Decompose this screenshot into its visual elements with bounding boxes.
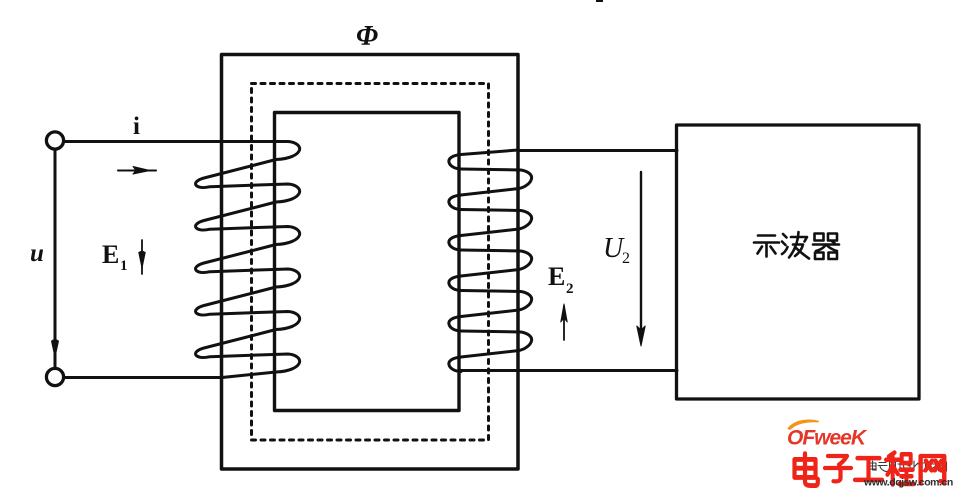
svg-text:i: i (133, 113, 140, 140)
wire: bottom-left horizontal (64, 376, 223, 379)
terminal top-left (46, 132, 63, 149)
watermark big red text (dian zi gong cheng wang) (795, 453, 945, 486)
watermark small gray text (dian qi zi dong hua ji shu wang) (869, 461, 947, 472)
wire: top-left horizontal (64, 140, 289, 143)
arrow on left wire (down) (52, 339, 59, 357)
glyph shi (754, 236, 779, 257)
speck at top edge (596, 0, 603, 2)
svg-text:2: 2 (566, 281, 574, 297)
transformer core outer boundary (222, 55, 519, 470)
oscilloscope label (drawn glyphs: shi bo qi) (754, 232, 839, 259)
glyph dian (795, 454, 818, 486)
svg-text:1: 1 (120, 258, 128, 274)
primary winding L1 (196, 142, 300, 378)
secondary winding L2 (449, 150, 532, 372)
arrow E1 (down) (141, 240, 143, 274)
svg-text:Φ: Φ (356, 21, 378, 52)
core window (inner rectangle) (275, 113, 460, 411)
flux path (dotted) (252, 84, 489, 441)
glyph zi (825, 456, 851, 481)
terminal bottom-left (46, 368, 63, 385)
wire: top-right to oscilloscope (518, 149, 677, 152)
oscilloscope box U3 (677, 125, 920, 399)
glyph cheng (886, 453, 914, 485)
glyph wang (921, 456, 945, 484)
glyph gong (855, 458, 882, 480)
glyph qi (813, 234, 839, 260)
svg-text:u: u (30, 240, 44, 267)
svg-text:E: E (548, 262, 565, 291)
svg-text:E: E (102, 240, 119, 269)
svg-text:www.dqjsw.com.cn: www.dqjsw.com.cn (863, 477, 953, 489)
wire: left vertical between terminals (54, 149, 57, 368)
arrow E2 (up) (563, 306, 565, 340)
OFweek logo swoosh (789, 420, 819, 429)
svg-text:2: 2 (622, 250, 630, 267)
glyph bo (782, 232, 809, 259)
svg-text:OFweeK: OFweeK (787, 427, 868, 450)
current arrow (right) (118, 170, 156, 172)
arrow U2 (long down) (640, 172, 642, 340)
wire: bottom-right to oscilloscope (461, 369, 677, 372)
